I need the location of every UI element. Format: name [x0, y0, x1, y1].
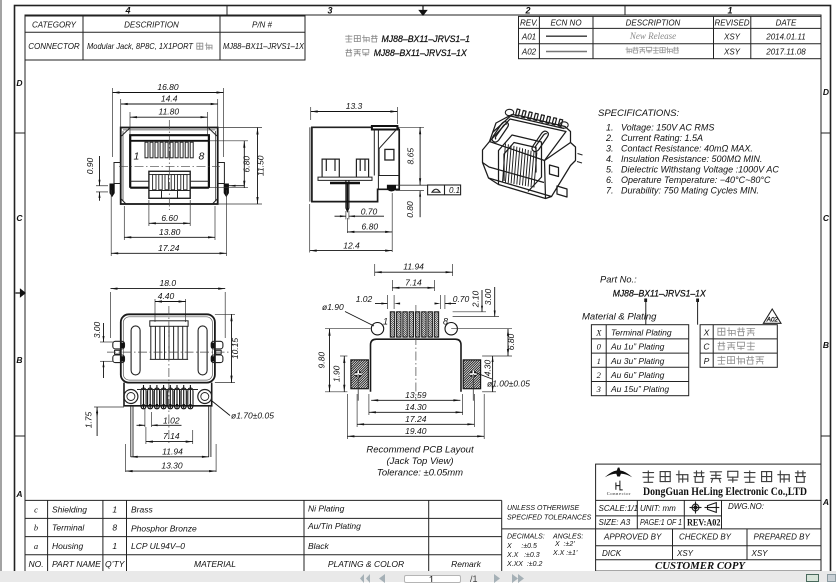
svg-text:11.94: 11.94: [403, 262, 424, 272]
svg-text:CATEGORY: CATEGORY: [32, 20, 77, 29]
svg-text:3.: 3.: [606, 144, 614, 154]
annotation note line1: [346, 35, 378, 42]
svg-text:Material & Plating: Material & Plating: [582, 312, 657, 323]
tolerance box: [502, 528, 596, 530]
pcb pegs: [110, 184, 114, 196]
svg-text:6.80: 6.80: [362, 222, 379, 232]
iso body outline: [483, 115, 576, 199]
svg-text:2: 2: [524, 6, 530, 16]
dim 11.80: [130, 116, 208, 118]
svg-text:DESCRIPTION: DESCRIPTION: [124, 20, 179, 29]
svg-text:9.80: 9.80: [317, 352, 327, 369]
svg-text:7.: 7.: [606, 186, 614, 196]
guide slots: [131, 326, 140, 375]
svg-text:11.80: 11.80: [158, 107, 179, 117]
svg-text:X :±0.5: X :±0.5: [506, 543, 537, 550]
svg-text:Contact Resistance: 40mΩ MAX: Contact Resistance: 40mΩ MAX.: [621, 144, 753, 154]
svg-text:XSY: XSY: [723, 32, 741, 41]
svg-text:8: 8: [112, 523, 117, 533]
svg-text:DECIMALS:: DECIMALS:: [507, 534, 545, 541]
rev triangle A02: [763, 309, 781, 323]
svg-text:SPECIFED TOLERANCES: SPECIFED TOLERANCES: [507, 515, 592, 522]
dim 0.70 pcb: [440, 295, 442, 309]
dim 1.02 pcb: [386, 295, 388, 309]
svg-text:0.80: 0.80: [405, 201, 415, 218]
iso slot left: [492, 122, 508, 142]
svg-text:C: C: [823, 213, 830, 223]
svg-text:PAGE:1 OF 1: PAGE:1 OF 1: [640, 518, 682, 527]
svg-text:8: 8: [199, 151, 205, 163]
right peg circle: [198, 390, 212, 404]
dim 12.4: [309, 204, 311, 253]
top view body: [121, 314, 215, 382]
svg-text:SIZE: A3: SIZE: A3: [599, 518, 631, 527]
svg-text:REV:A02: REV:A02: [687, 519, 721, 529]
packaging option hanzi rows: [718, 328, 755, 336]
svg-text:DATE: DATE: [776, 18, 797, 27]
svg-text:17.24: 17.24: [158, 243, 180, 253]
svg-text:0.1: 0.1: [449, 186, 460, 195]
iso bottom lip: [483, 163, 552, 197]
svg-text:Insulation Resistance: 500MΩ: Insulation Resistance: 500MΩ MIN.: [621, 154, 762, 164]
dim 0.90: [96, 185, 108, 187]
dim 2.10: [453, 311, 486, 313]
svg-text:11.50: 11.50: [255, 155, 265, 176]
pcb peg: [387, 185, 395, 191]
svg-text:Remark: Remark: [451, 559, 482, 569]
svg-text:D: D: [16, 78, 22, 88]
svg-text:Modular Jack, 8P8C, 1X1PORT: Modular Jack, 8P8C, 1X1PORT: [87, 42, 194, 51]
terminal pin: [346, 180, 349, 211]
svg-text:X :±2’: X :±2’: [554, 541, 575, 548]
dim 6.60: [148, 200, 150, 226]
svg-text:ANGLES:: ANGLES:: [552, 534, 583, 541]
svg-text:2.: 2.: [605, 133, 614, 143]
svg-text:SPECIFICATIONS:: SPECIFICATIONS:: [598, 108, 679, 119]
dim 13.3: [310, 107, 312, 120]
svg-text:6.80: 6.80: [506, 333, 516, 350]
svg-text:8: 8: [443, 317, 448, 327]
dim 4.40: [154, 299, 156, 322]
dim 7.14 pcb: [391, 280, 393, 291]
svg-text:8.65: 8.65: [405, 148, 415, 165]
svg-text:1: 1: [112, 541, 117, 551]
dim 0.80: [419, 191, 421, 218]
svg-text:CONNECTOR: CONNECTOR: [28, 42, 80, 51]
svg-text:1: 1: [134, 151, 140, 163]
svg-text:10.15: 10.15: [230, 338, 240, 360]
svg-text:ø1.70±0.05: ø1.70±0.05: [231, 411, 274, 421]
dim 9.80: [325, 328, 371, 330]
svg-text:3.00: 3.00: [92, 321, 102, 338]
dim 11.94 pcb: [374, 264, 376, 276]
svg-text:Au 6u” Plating: Au 6u” Plating: [610, 370, 665, 380]
flatness frame 0.1: [428, 185, 461, 195]
title block: [596, 464, 821, 571]
iso contacts hatch: [503, 144, 537, 188]
svg-text:CHECKED BY: CHECKED BY: [679, 533, 732, 542]
svg-text:1: 1: [112, 505, 117, 515]
svg-text:16.80: 16.80: [157, 82, 179, 92]
svg-text:11.94: 11.94: [162, 446, 183, 456]
svg-text:New Release: New Release: [629, 31, 676, 41]
iso cylinders: [505, 109, 582, 163]
svg-text:3.00: 3.00: [483, 288, 493, 305]
svg-text:6.60: 6.60: [161, 213, 178, 223]
plating table: [591, 325, 688, 396]
label dia 1.70: [212, 401, 230, 416]
svg-text:A02: A02: [766, 317, 779, 324]
coil contacts: [141, 388, 146, 409]
latch tab: [149, 171, 190, 198]
svg-text:XSY: XSY: [723, 48, 741, 57]
front view body outline: [121, 128, 218, 205]
hole pin8: [445, 323, 457, 335]
iso slot right: [532, 131, 548, 151]
svg-text:MJ88–BX11–JRVS1–1X: MJ88–BX11–JRVS1–1X: [223, 42, 305, 51]
svg-text:Ni Plating: Ni Plating: [308, 504, 345, 514]
svg-text:4.40: 4.40: [158, 291, 175, 301]
svg-text:DICK: DICK: [602, 549, 622, 558]
annotation note line2: [346, 49, 369, 56]
centering arrow top: [420, 6, 427, 15]
svg-text:2017.11.08: 2017.11.08: [765, 48, 806, 57]
lower section: [124, 383, 212, 406]
svg-text:A01: A01: [521, 32, 536, 41]
dim 11.94: [131, 456, 209, 458]
svg-text:2: 2: [597, 370, 602, 380]
projection symbols: [690, 502, 720, 514]
dim 1.02: [144, 408, 146, 427]
svg-text:2014.01.11: 2014.01.11: [765, 32, 805, 41]
svg-text:Connector: Connector: [607, 491, 632, 496]
svg-text:X.XX :±0.2: X.XX :±0.2: [506, 561, 542, 568]
svg-text:CUSTOMER COPY: CUSTOMER COPY: [655, 561, 747, 571]
svg-text:13.59: 13.59: [405, 390, 427, 400]
svg-text:ECN NO: ECN NO: [550, 18, 581, 27]
note 短脚: [197, 43, 212, 50]
svg-text:Q’TY: Q’TY: [105, 559, 126, 569]
hole pin1: [371, 323, 383, 335]
svg-text:Dielectric Withstang Voltage: Dielectric Withstang Voltage :1000V AC: [621, 165, 779, 175]
svg-text:0.90: 0.90: [85, 157, 95, 174]
svg-text:REV.: REV.: [520, 18, 538, 27]
svg-text:7.14: 7.14: [405, 277, 422, 287]
svg-text:5.: 5.: [606, 165, 614, 175]
svg-text:X.X :±1’: X.X :±1’: [552, 550, 578, 557]
svg-text:c: c: [34, 505, 38, 515]
svg-text:b: b: [34, 523, 38, 533]
iso front opening: [499, 135, 542, 192]
dim 17.24: [110, 190, 112, 256]
centering arrow left: [16, 290, 26, 297]
svg-text:MJ88–BX11–JRVS1–1X: MJ88–BX11–JRVS1–1X: [374, 48, 468, 58]
svg-text:B: B: [16, 355, 22, 365]
body footprint: [371, 339, 462, 392]
svg-text:13.3: 13.3: [346, 101, 363, 111]
dim 13.59: [371, 399, 460, 401]
dim 4.30: [482, 391, 496, 393]
svg-text:P/N #: P/N #: [252, 20, 273, 29]
dim 3.00 pcb: [453, 316, 499, 318]
svg-text:1.02: 1.02: [356, 294, 373, 304]
company name chinese: [643, 471, 805, 482]
svg-text:12.4: 12.4: [343, 240, 360, 250]
leader pin X: [696, 299, 699, 303]
svg-text:Tolerance: ±0.05mm: Tolerance: ±0.05mm: [377, 468, 463, 479]
svg-text:PART NAME: PART NAME: [52, 559, 101, 569]
svg-text:PREPARED BY: PREPARED BY: [754, 533, 811, 542]
dim 17.24: [356, 394, 358, 427]
revision table: [519, 16, 822, 58]
svg-text:Part No.:: Part No.:: [600, 275, 637, 285]
svg-text:ø1.00±0.05: ø1.00±0.05: [487, 379, 530, 389]
svg-text:19.40: 19.40: [405, 426, 427, 436]
side window: [385, 149, 394, 160]
svg-text:1: 1: [597, 356, 601, 366]
dim 6.80 pcb: [451, 328, 512, 330]
dim 14.4: [121, 103, 218, 105]
svg-text:UNIT: mm: UNIT: mm: [640, 504, 676, 513]
svg-text:X: X: [703, 327, 710, 337]
svg-text:DongGuan HeLing Electronic: DongGuan HeLing Electronic Co.,LTD: [643, 486, 807, 498]
svg-text:14.4: 14.4: [161, 94, 178, 104]
specifications text: [598, 108, 779, 196]
dim 0.70: [345, 211, 347, 219]
svg-text:A02: A02: [521, 48, 537, 57]
svg-text:17.24: 17.24: [405, 414, 427, 424]
svg-text:18.0: 18.0: [160, 278, 177, 288]
svg-text:PLATING & COLOR: PLATING & COLOR: [328, 559, 404, 569]
dim 1.75: [94, 406, 124, 408]
left peg circle: [124, 390, 138, 404]
svg-text:Recommend PCB Layout: Recommend PCB Layout: [366, 445, 474, 456]
svg-text:ø1.90: ø1.90: [322, 302, 344, 312]
BOM table: [25, 500, 502, 571]
svg-text:Au 15u” Plating: Au 15u” Plating: [610, 384, 669, 394]
iso pins: [516, 109, 521, 116]
latch lip: [372, 126, 398, 130]
svg-text:X.X :±0.3: X.X :±0.3: [506, 552, 540, 559]
svg-text:4.30: 4.30: [483, 359, 493, 376]
svg-text:Terminal Plating: Terminal Plating: [611, 327, 672, 337]
svg-text:MJ88–BX11–JRVS1–1: MJ88–BX11–JRVS1–1: [382, 34, 471, 44]
svg-text:Terminal: Terminal: [52, 523, 85, 533]
svg-text:Brass: Brass: [131, 505, 153, 515]
right pad: [463, 360, 480, 389]
svg-text:DWG.NO:: DWG.NO:: [728, 502, 764, 511]
svg-text:C: C: [703, 342, 710, 352]
svg-text:P: P: [704, 356, 710, 366]
svg-text:13.30: 13.30: [161, 461, 183, 471]
contact posts: [322, 159, 339, 177]
dim 16.80: [113, 92, 224, 94]
svg-text:6.80: 6.80: [241, 156, 251, 173]
svg-text:D: D: [823, 87, 829, 97]
left pad: [351, 360, 368, 389]
dim 7.14: [145, 427, 147, 444]
svg-text:Shielding: Shielding: [52, 505, 87, 515]
svg-text:Au 1u” Plating: Au 1u” Plating: [610, 342, 665, 352]
svg-text:4.: 4.: [606, 154, 614, 164]
svg-text:Au/Tin Plating: Au/Tin Plating: [307, 521, 361, 531]
right ear: [211, 341, 223, 349]
svg-text:C: C: [16, 213, 23, 223]
dim 10.15: [215, 313, 235, 315]
isometric view group: [483, 109, 576, 199]
svg-text:1.02: 1.02: [163, 415, 180, 425]
svg-text:A: A: [822, 497, 829, 507]
svg-text:(Jack Top View): (Jack Top View): [386, 456, 453, 467]
svg-text:Au 3u” Plating: Au 3u” Plating: [610, 356, 665, 366]
svg-text:A: A: [15, 489, 22, 499]
dim 14.30: [368, 394, 370, 415]
svg-text:DESCRIPTION: DESCRIPTION: [626, 18, 681, 27]
svg-text:0: 0: [597, 342, 602, 352]
svg-text:7.14: 7.14: [163, 431, 180, 441]
dim 13.80: [123, 206, 125, 240]
svg-text:3: 3: [596, 384, 601, 394]
svg-text:Phosphor Bronze: Phosphor Bronze: [131, 524, 197, 534]
svg-text:Operature Temperature: −40°C: Operature Temperature: −40°C~80°C: [621, 175, 771, 185]
terminal pads: [390, 312, 394, 337]
svg-text:4: 4: [124, 6, 130, 16]
svg-text:13.80: 13.80: [159, 227, 181, 237]
contact slots: [145, 142, 148, 158]
side tabs: [114, 163, 121, 184]
zone ticks right: [821, 132, 831, 134]
left ear: [113, 341, 125, 349]
dim 1.90 left: [340, 355, 347, 357]
dim 11.50: [218, 127, 262, 129]
svg-text:6.: 6.: [606, 175, 614, 185]
svg-text:REVISED: REVISED: [714, 18, 749, 27]
packaging table: [700, 325, 777, 368]
iso right face: [545, 143, 571, 199]
dim 13.30: [125, 444, 127, 472]
dim 6.80 right: [209, 140, 248, 142]
company logo bird: [605, 468, 633, 478]
contact comb: [150, 321, 188, 327]
svg-text:Black: Black: [308, 541, 330, 551]
svg-text:LCP UL94V–0: LCP UL94V–0: [131, 541, 185, 551]
svg-text:3: 3: [327, 6, 332, 16]
svg-text:XSY: XSY: [751, 549, 769, 558]
svg-text:2.10: 2.10: [470, 290, 480, 308]
jack opening: [130, 135, 209, 188]
svg-text:SCALE:1/1: SCALE:1/1: [599, 504, 639, 513]
svg-text:1: 1: [727, 6, 732, 16]
dim 6.80: [391, 193, 393, 252]
svg-text:1.75: 1.75: [84, 411, 94, 428]
iso top face: [490, 119, 567, 161]
part number block: [600, 275, 706, 299]
svg-text:X: X: [595, 327, 602, 337]
leader pin 1: [644, 299, 647, 303]
svg-text:UNLESS OTHERWISE: UNLESS OTHERWISE: [507, 505, 580, 512]
zone ticks left: [15, 132, 26, 134]
svg-text:1: 1: [383, 317, 388, 327]
svg-text:1.: 1.: [606, 123, 614, 133]
dim 18.0: [110, 292, 112, 338]
svg-text:Current Rating: 1.5A: Current Rating: 1.5A: [621, 133, 703, 143]
svg-text:a: a: [34, 541, 38, 551]
zone ticks top: [226, 6, 228, 16]
svg-text:14.30: 14.30: [405, 402, 427, 412]
svg-text:MJ88–BX11–JRVS1–1X: MJ88–BX11–JRVS1–1X: [613, 288, 707, 298]
svg-text:Housing: Housing: [52, 541, 83, 551]
svg-text:0.70: 0.70: [453, 294, 470, 304]
svg-text:1.90: 1.90: [332, 365, 342, 382]
svg-text:APPROVED BY: APPROVED BY: [603, 533, 662, 542]
side body outline: [312, 127, 399, 201]
dim 8.65: [397, 126, 424, 128]
rev A02 description 新增包装方式选项: [626, 47, 679, 53]
svg-text:Durability: 750 Mating Cycl: Durability: 750 Mating Cycles MIN.: [621, 186, 759, 196]
label dia 1.00: [474, 372, 492, 379]
svg-text:Voltage: 150V AC RMS: Voltage: 150V AC RMS: [621, 123, 714, 133]
svg-text:MATERIAL: MATERIAL: [194, 559, 236, 569]
dim 3.00: [100, 341, 113, 343]
dim 19.40: [346, 394, 348, 439]
svg-text:NO.: NO.: [28, 559, 43, 569]
category table: [25, 16, 305, 60]
svg-text:XSY: XSY: [676, 549, 694, 558]
svg-text:0.70: 0.70: [361, 207, 378, 217]
svg-text:B: B: [823, 340, 829, 350]
